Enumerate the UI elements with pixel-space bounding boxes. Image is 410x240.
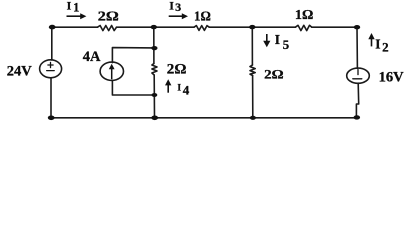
svg-text:16V: 16V bbox=[379, 69, 405, 85]
junction node top-right bbox=[354, 25, 360, 29]
svg-text:I3: I3 bbox=[169, 0, 181, 14]
resistor 2ohm branch2 vertical zigzag bbox=[250, 65, 255, 76]
svg-text:I5: I5 bbox=[275, 32, 290, 52]
current arrow I2 up bbox=[368, 33, 374, 46]
arrow inside 4A source bbox=[109, 64, 115, 80]
polarity minus of 24V bbox=[47, 70, 55, 72]
junction node 4A loop bottom bbox=[152, 93, 158, 97]
wire left vertical lower bbox=[50, 78, 52, 118]
resistor 2ohm branch1 vertical zigzag bbox=[152, 64, 157, 76]
wire bottom bbox=[51, 117, 357, 119]
junction node bottom branch2 bbox=[250, 116, 256, 120]
wire right vertical lower with jog bbox=[356, 83, 358, 118]
svg-text:I4: I4 bbox=[177, 82, 189, 97]
wire top segment to node D bbox=[312, 26, 357, 28]
polarity plus of 24V bbox=[48, 62, 53, 67]
junction node top branch1 bbox=[151, 25, 157, 29]
wire left vertical upper bbox=[51, 27, 53, 60]
wire branch2 vertical upper bbox=[251, 27, 253, 65]
resistor 1ohm top-right zigzag bbox=[295, 25, 311, 30]
svg-text:2Ω: 2Ω bbox=[98, 8, 119, 23]
wire top segment R 2ohm to node B bbox=[117, 26, 195, 28]
svg-text:1Ω: 1Ω bbox=[194, 9, 211, 24]
wire right vertical upper bbox=[356, 27, 358, 68]
svg-text:4A: 4A bbox=[83, 49, 101, 65]
wire branch2 vertical lower bbox=[252, 76, 254, 118]
wire 4A loop bottom bbox=[112, 81, 154, 96]
junction node bottom-left bbox=[48, 116, 55, 121]
current arrow I4 up bbox=[165, 79, 171, 93]
svg-text:24V: 24V bbox=[7, 63, 33, 79]
svg-text:1Ω: 1Ω bbox=[295, 8, 313, 23]
junction node 4A loop top bbox=[151, 46, 157, 50]
wire branch1 vertical lower bbox=[153, 75, 155, 118]
wire top segment node C to R 1ohm right bbox=[209, 26, 295, 28]
current arrow I3 bbox=[169, 13, 188, 19]
wire 4A loop top vertical bbox=[112, 48, 154, 63]
junction node bottom-right bbox=[354, 115, 361, 119]
current arrow I5 down bbox=[263, 34, 270, 47]
polarity minus of 16V bbox=[353, 78, 362, 80]
wire top segment node A to R 2ohm bbox=[52, 26, 98, 28]
junction node top branch2 bbox=[249, 25, 255, 29]
junction node top-left bbox=[49, 25, 56, 30]
svg-text:I1: I1 bbox=[67, 0, 80, 14]
voltage source 16V circle bbox=[347, 68, 370, 83]
svg-text:2Ω: 2Ω bbox=[167, 61, 187, 77]
voltage source 24V circle bbox=[40, 60, 62, 78]
resistor 1ohm top-middle zigzag bbox=[194, 26, 209, 31]
current arrow I1 bbox=[67, 13, 87, 19]
resistor 2ohm top-left zigzag bbox=[98, 26, 117, 31]
polarity plus tick of 16V bbox=[357, 70, 359, 75]
junction node bottom branch1 bbox=[151, 116, 158, 121]
svg-text:2Ω: 2Ω bbox=[264, 67, 284, 82]
svg-text:I2: I2 bbox=[375, 36, 388, 54]
current source 4A circle bbox=[100, 62, 123, 80]
wire branch1 vertical upper bbox=[153, 27, 155, 63]
